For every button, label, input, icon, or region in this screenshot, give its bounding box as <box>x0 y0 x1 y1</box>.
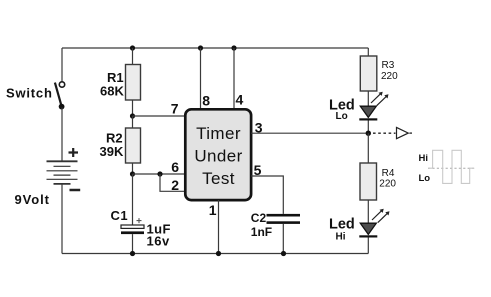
wire: C2 to bottom rail <box>282 224 284 254</box>
wire: top supply rail <box>62 47 368 49</box>
svg-text:Switch: Switch <box>6 86 53 101</box>
wire: output node down to R4 <box>367 133 369 163</box>
svg-text:Test: Test <box>202 169 235 188</box>
LED D2 (Hi) cathode bar <box>359 235 377 237</box>
wire: C1 to bottom rail <box>132 234 134 253</box>
waveform centerline (dashed) <box>428 167 475 169</box>
capacitor C2 bottom plate <box>267 221 301 224</box>
switch S1 lever <box>55 83 62 106</box>
svg-text:Hi: Hi <box>336 232 346 243</box>
wire: top rail to R1 <box>132 48 134 65</box>
LED D2 (Hi) triangle <box>360 223 376 234</box>
wire: pin 4 drop from top rail <box>233 48 235 109</box>
svg-text:2: 2 <box>171 177 179 193</box>
battery minus sign <box>70 189 81 192</box>
wire: pin 5 to C2 <box>251 176 283 214</box>
battery plus sign <box>69 148 79 157</box>
svg-text:220: 220 <box>381 71 398 82</box>
node: pin2 branch junction <box>157 171 162 176</box>
capacitor C2 top plate <box>267 214 301 217</box>
op-amp U1: timer under test box <box>185 109 251 200</box>
svg-text:3: 3 <box>255 119 263 135</box>
wire: dashed output stub <box>373 132 396 134</box>
node: bottom rail junction at pin 1 <box>216 251 221 256</box>
wire: LED Lo to output node <box>367 121 369 134</box>
wire: node B to pin 6 <box>133 173 186 175</box>
svg-text:Timer: Timer <box>196 124 241 143</box>
node: top rail junction at R1 <box>130 45 135 50</box>
node B: R2/C1/pin6 junction <box>130 171 135 176</box>
LED D1 (Lo) cathode bar <box>359 118 377 120</box>
svg-text:1: 1 <box>209 202 217 218</box>
node: bottom rail junction at C2 <box>281 251 286 256</box>
wire: R1 to node A <box>132 100 134 116</box>
capacitor C1 top plate (hollow) <box>121 225 144 228</box>
node: top rail junction at pin 8 <box>198 45 203 50</box>
svg-text:R3: R3 <box>382 60 395 71</box>
wire: node A to R2 <box>132 116 134 128</box>
svg-text:4: 4 <box>236 92 244 108</box>
svg-text:Hi: Hi <box>419 153 429 164</box>
resistor R3 body <box>360 56 377 91</box>
LED D2 (Hi) emission arrows <box>372 209 390 223</box>
svg-text:R4: R4 <box>382 168 395 179</box>
wire: bottom ground rail <box>62 253 368 255</box>
capacitor C1 bottom plate <box>121 231 144 234</box>
svg-text:6: 6 <box>171 159 179 175</box>
wire: LED Hi to bottom rail <box>367 238 369 254</box>
svg-text:220: 220 <box>379 179 396 190</box>
wire: pin 8 drop from top rail <box>200 48 202 109</box>
wire: switch to battery positive <box>61 108 63 161</box>
svg-text:C1: C1 <box>111 208 129 223</box>
svg-text:1nF: 1nF <box>251 225 272 239</box>
LED D1 (Lo) triangle <box>360 106 376 117</box>
switch S1 bottom contact (filled) <box>59 104 65 110</box>
svg-text:Led: Led <box>329 217 355 233</box>
wire: R2 to node B <box>132 163 134 174</box>
wire: R4 to LED Hi <box>367 200 369 223</box>
svg-text:Lo: Lo <box>419 173 431 184</box>
resistor R4 body <box>360 163 377 200</box>
battery B1 9V plates <box>47 161 78 184</box>
output arrowhead (open) <box>397 127 409 138</box>
svg-text:9Volt: 9Volt <box>15 192 50 207</box>
svg-text:16v: 16v <box>147 234 170 249</box>
svg-text:68K: 68K <box>100 84 124 99</box>
wire: pin 1 to bottom rail <box>218 200 220 254</box>
svg-text:Under: Under <box>194 147 242 166</box>
node: top rail junction at pin 4 <box>231 45 236 50</box>
wire: top rail down to R3 <box>367 48 369 56</box>
svg-text:7: 7 <box>171 100 179 116</box>
svg-text:39K: 39K <box>100 144 124 159</box>
capacitor C1 polarity plus <box>137 218 142 223</box>
wire: battery negative to bottom rail <box>61 184 63 254</box>
svg-text:Lo: Lo <box>336 111 348 122</box>
svg-text:5: 5 <box>254 162 262 178</box>
svg-text:8: 8 <box>202 93 210 109</box>
node: output junction pin3/LEDs <box>366 131 371 136</box>
wire: pin 3 output to LED junction <box>251 132 368 134</box>
resistor R2 body <box>126 128 141 163</box>
resistor R1 body <box>126 65 141 101</box>
wire: R3 to LED Lo <box>367 91 369 106</box>
wire: node B down to C1 <box>132 174 134 225</box>
waveform square wave trace <box>428 150 474 183</box>
switch S1 open contact circle <box>59 82 64 87</box>
wire: branch down to pin 2 <box>160 174 185 191</box>
LED D1 (Lo) emission arrows <box>371 92 389 106</box>
wire: left rail from top rail to switch top contact <box>61 48 63 82</box>
svg-text:C2: C2 <box>251 211 267 225</box>
node: bottom rail junction at C1 <box>130 251 135 256</box>
wire: node A to pin 7 <box>133 115 186 117</box>
node A: R1/R2/pin7 junction <box>130 113 135 118</box>
